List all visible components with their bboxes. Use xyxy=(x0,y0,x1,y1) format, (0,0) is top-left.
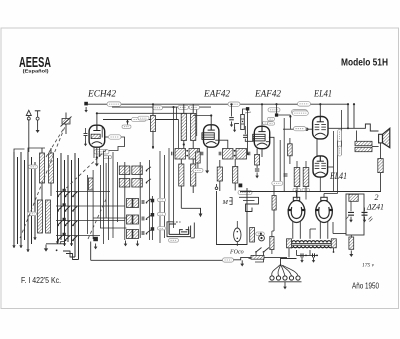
fuse resistor xyxy=(270,237,274,250)
title Modelo 51H xyxy=(341,58,388,69)
volume label xyxy=(169,239,179,243)
el41 junction xyxy=(275,103,277,113)
mains wires xyxy=(249,253,264,262)
label 2 of AZ41 xyxy=(375,193,379,202)
coil L4 xyxy=(46,200,51,233)
el cap wires xyxy=(236,221,238,246)
coil L3 xyxy=(38,200,43,233)
svg-text:ΔZ41: ΔZ41 xyxy=(366,202,384,212)
EAF42-2 top wire xyxy=(261,103,263,126)
comb top jogs xyxy=(14,148,45,152)
IFT2 sec xyxy=(233,167,238,184)
svg-text:FOco: FOco xyxy=(229,250,244,256)
selector rail xyxy=(269,282,302,290)
junction dot xyxy=(260,233,262,235)
IFT1 sec a xyxy=(179,164,184,186)
Rb wire xyxy=(183,104,185,148)
bus label c xyxy=(298,102,311,106)
pickup terminal M xyxy=(222,198,233,206)
label AZ41 xyxy=(366,202,384,212)
junction dot b xyxy=(278,115,291,129)
avc label xyxy=(193,169,203,173)
osc coil small xyxy=(89,178,94,190)
Rc wire xyxy=(192,104,194,148)
tube ECH42 xyxy=(89,125,105,147)
mains switch xyxy=(255,248,269,253)
extra mid verticals xyxy=(118,160,150,240)
interstage trimmer box xyxy=(241,115,245,130)
EAF42-2 wires xyxy=(257,149,262,168)
svg-text:F. I 422'5 Kc.: F. I 422'5 Kc. xyxy=(21,276,61,285)
EL41-1 top wire xyxy=(319,104,321,116)
label EL41 mid xyxy=(329,171,347,181)
coil bank caps xyxy=(142,200,144,235)
ECH42 top cap wire xyxy=(96,113,98,125)
hook A xyxy=(63,251,75,257)
cap square column xyxy=(151,196,166,240)
right verticals xyxy=(334,110,342,194)
second bus drop xyxy=(353,104,355,128)
antenna lead wire xyxy=(28,119,30,152)
top bus wire xyxy=(88,103,348,105)
transformer core line a xyxy=(287,243,337,245)
transformer core line b xyxy=(287,244,337,246)
IFT1 coil a xyxy=(175,149,186,160)
tuner wiring comb xyxy=(14,152,79,260)
screen resistor EL41 xyxy=(288,144,293,156)
B+ terminal xyxy=(84,102,88,113)
interstage junction xyxy=(243,107,250,114)
transformer end box right xyxy=(331,239,336,248)
oscillator coil bank xyxy=(119,166,142,239)
coil bank arrows xyxy=(146,167,151,235)
EL41-1 anode wire xyxy=(328,127,349,129)
grid wire 3 label xyxy=(132,117,147,121)
HT winding box xyxy=(349,194,358,201)
coil bank stub wires xyxy=(93,218,127,228)
diode load resistor xyxy=(217,167,222,181)
filter cap 1 xyxy=(346,201,355,222)
resistor Rb xyxy=(181,114,186,141)
resistor Ra xyxy=(151,116,156,132)
IFT1 sec b xyxy=(191,164,196,186)
resistor Rc xyxy=(191,114,196,141)
trimmer capacitor xyxy=(61,113,72,135)
bleeder gnd xyxy=(349,235,353,257)
bus wire 1b xyxy=(112,107,211,136)
cathode resistor xyxy=(250,228,255,243)
output transformer xyxy=(355,141,372,151)
EAF42-2 plate resistor xyxy=(255,155,260,166)
grid wire xyxy=(283,128,313,130)
switch row rails xyxy=(56,192,125,236)
OT wires xyxy=(348,104,370,156)
EAF42-1 cathode xyxy=(205,147,209,173)
IFT1 coil b xyxy=(189,149,200,160)
transformer primary xyxy=(288,241,331,243)
left end bus2 xyxy=(96,112,98,114)
resistor right mid xyxy=(272,158,276,231)
grid res labels xyxy=(293,188,310,191)
IFT2 core dots xyxy=(234,150,236,157)
interstage gnd wire xyxy=(233,124,239,133)
tube EAF42 first xyxy=(202,125,219,147)
earth lead wire xyxy=(37,120,39,126)
logo subtitle (Espanol) xyxy=(23,68,49,74)
rectifier tube AZ41 a xyxy=(288,197,306,222)
rectifier tube AZ41 b xyxy=(315,197,333,222)
EAF42-2 anode wire xyxy=(269,137,274,158)
label EAF42 first xyxy=(203,90,230,100)
pilot lamp xyxy=(259,235,265,241)
gang dashed link 2 xyxy=(46,128,64,157)
transformer end box left xyxy=(287,239,292,248)
label ECH42 xyxy=(87,90,116,100)
EL41-2 anode wire xyxy=(328,166,334,168)
grid label xyxy=(294,127,307,131)
shield loop arrow xyxy=(181,208,202,217)
az41 to filter wire xyxy=(333,222,346,234)
mid verticals right xyxy=(280,118,284,192)
resistor Rb label xyxy=(178,105,189,109)
label FOco xyxy=(229,250,244,256)
270ohm label xyxy=(238,190,252,194)
bus wire 2 xyxy=(97,112,193,114)
transformer left end lead xyxy=(288,248,290,258)
pickup jack xyxy=(180,230,189,235)
svg-text:EAF42: EAF42 xyxy=(254,90,281,100)
filter cap 2 xyxy=(362,208,373,223)
comb bottom arrowheads xyxy=(12,237,73,252)
field coil wires xyxy=(380,143,382,192)
shield channel right xyxy=(191,223,195,238)
resistor Rc label xyxy=(189,105,200,109)
el41-2 pin extends xyxy=(297,177,320,199)
IFT1 trim caps xyxy=(172,152,203,156)
svg-text:EL41: EL41 xyxy=(329,171,347,181)
grid resistor pair xyxy=(294,168,309,187)
osc label under tube xyxy=(94,150,109,154)
IFT1 wires xyxy=(181,159,193,208)
coupling cap C3 xyxy=(243,126,253,141)
transformer secondary xyxy=(290,246,333,248)
shield channel inner xyxy=(169,224,188,234)
coil bank verticals xyxy=(104,107,179,244)
label 175v xyxy=(362,263,375,269)
filter box xyxy=(346,194,364,235)
svg-text:ECH42: ECH42 xyxy=(87,90,116,100)
svg-text:Año 1950: Año 1950 xyxy=(352,282,380,291)
right rot bubble xyxy=(338,130,342,157)
OT to speaker wire xyxy=(372,146,379,148)
coil L1 xyxy=(40,153,45,183)
speaker xyxy=(379,128,390,147)
tuner rail gnd xyxy=(44,245,48,252)
AZ41 top wires xyxy=(295,190,337,197)
rectifier heater caps xyxy=(297,250,319,263)
label F.I 422'5 Kc xyxy=(21,276,61,285)
band switch contacts xyxy=(57,189,77,242)
mid rail xyxy=(240,191,381,193)
bus label b xyxy=(228,102,240,106)
EAF42-2 plate cap xyxy=(255,169,259,178)
diode load wires xyxy=(219,160,221,191)
grid bubble xyxy=(292,111,308,115)
bus junction dots xyxy=(96,103,355,114)
svg-text:EAF42: EAF42 xyxy=(203,90,230,100)
earth ground xyxy=(36,127,40,134)
svg-text:175 v: 175 v xyxy=(362,263,375,269)
interstage vertical xyxy=(247,110,249,155)
speaker top wire xyxy=(348,124,379,131)
eaf1 top link xyxy=(193,114,212,116)
phono loop xyxy=(239,197,259,211)
coil L1 label xyxy=(29,165,38,169)
bus2 label xyxy=(292,110,308,115)
transformer right end lead xyxy=(333,248,335,253)
osc tiny label xyxy=(104,156,112,159)
tube EL41 second xyxy=(313,156,328,177)
electrolytic cap xyxy=(234,228,241,242)
svg-text:AEESA: AEESA xyxy=(19,54,51,71)
osc wire right xyxy=(103,137,125,151)
junction on grid wire xyxy=(122,120,131,129)
hook B xyxy=(66,254,79,260)
svg-text:EL41: EL41 xyxy=(313,90,332,100)
coil top wires xyxy=(42,148,51,200)
bubble 001uF xyxy=(263,121,274,124)
osc grid label xyxy=(109,135,122,139)
el41-2 wires xyxy=(297,161,306,195)
ECH42 bottom leads xyxy=(94,147,100,158)
avc wires xyxy=(197,149,199,169)
antenna terminal xyxy=(26,110,31,120)
selector feed xyxy=(281,259,297,266)
coil bank grounds xyxy=(124,241,140,247)
heater ground xyxy=(240,260,244,266)
EAF42-1 anode wire xyxy=(219,140,228,148)
left col caps xyxy=(84,128,88,146)
transformer wires xyxy=(293,221,328,239)
rail dot xyxy=(56,249,58,251)
screen res wires xyxy=(289,138,291,164)
svg-text:(Español): (Español) xyxy=(23,68,49,74)
cathode res label xyxy=(256,232,264,236)
mid small parts xyxy=(272,174,288,185)
decoupling stub xyxy=(229,103,234,127)
junction square det xyxy=(239,184,243,188)
third gang dash xyxy=(58,148,108,239)
shield channel outer xyxy=(167,222,191,237)
heater rail 2 xyxy=(234,257,252,259)
grid wire 3 xyxy=(103,119,179,121)
IFT1 core dots xyxy=(186,150,188,157)
left bubble col xyxy=(268,117,275,125)
bus label a xyxy=(107,102,121,106)
label EAF42 second xyxy=(254,90,281,100)
heater rail 3 xyxy=(264,256,287,258)
left mid verticals xyxy=(87,163,106,260)
avc resistor xyxy=(196,152,201,163)
heater resistor xyxy=(251,255,264,259)
resistor Ra label xyxy=(153,106,163,110)
coil L2 xyxy=(49,153,54,183)
resistor Ra wires xyxy=(152,104,154,149)
fuse wires xyxy=(271,231,273,254)
bus right vertical xyxy=(347,104,349,128)
17ohm label xyxy=(223,258,234,262)
IFT2 coil a xyxy=(223,149,234,160)
phono loop inner xyxy=(243,200,255,202)
tube EAF42 second xyxy=(253,126,270,148)
bleeder resistor xyxy=(349,237,354,249)
interstage label xyxy=(245,112,251,113)
junction block xyxy=(93,237,98,250)
logo AEESA xyxy=(19,54,51,71)
label EL41 top xyxy=(313,90,332,100)
IFT2 wires xyxy=(234,159,236,191)
mains voltage selector xyxy=(270,264,300,280)
EL41 link wire xyxy=(316,139,318,156)
svg-text:M: M xyxy=(222,199,229,206)
EAF42-1 top wire xyxy=(210,116,212,125)
svg-text:Modelo 51H: Modelo 51H xyxy=(341,58,388,69)
earth terminal xyxy=(35,111,41,120)
tube EL41 first xyxy=(313,117,328,139)
feedback box wires xyxy=(217,188,248,245)
junction square xyxy=(275,113,278,116)
heater rail xyxy=(91,259,223,261)
label Ano 1950 xyxy=(352,282,380,291)
dash marks xyxy=(173,221,181,223)
IFT2 trim caps xyxy=(219,152,250,156)
field coil xyxy=(378,159,383,173)
gang dashed link xyxy=(20,124,66,238)
470 label xyxy=(268,108,280,112)
feedback box contact xyxy=(215,184,218,190)
osc cathode wire xyxy=(96,148,98,160)
tuner bottom rail xyxy=(46,242,64,244)
IFT2 coil b xyxy=(236,149,247,160)
coil L3 label xyxy=(28,212,37,216)
resistor Ra label2 xyxy=(138,116,149,120)
osc ground xyxy=(95,160,99,167)
